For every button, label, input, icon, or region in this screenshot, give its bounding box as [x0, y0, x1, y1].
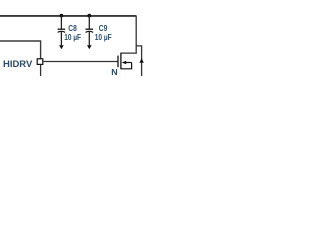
wire below HIDRV pin: [40, 65, 42, 76]
node junction dot C9: [87, 14, 91, 18]
pin box HIDRV: [37, 59, 43, 65]
wire top supply rail: [0, 15, 136, 17]
svg-text:10 µF: 10 µF: [95, 32, 112, 42]
wire branch jog to switch-node line: [136, 46, 141, 76]
wire bootstrap rail to HIDRV pin: [0, 41, 41, 59]
node junction dot C8: [60, 14, 64, 18]
svg-text:HIDRV: HIDRV: [3, 59, 33, 69]
wire gate from HIDRV pin: [43, 61, 118, 63]
svg-text:N: N: [111, 67, 117, 76]
wire drain vertical from rail: [135, 16, 137, 54]
arrowhead up on switch-node line: [139, 58, 143, 63]
capacitor C9: [86, 16, 94, 50]
transistor N-channel MOSFET: [118, 53, 132, 70]
svg-text:10 µF: 10 µF: [64, 32, 81, 42]
wire drain stub to channel: [121, 52, 137, 54]
capacitor C8: [58, 16, 66, 50]
